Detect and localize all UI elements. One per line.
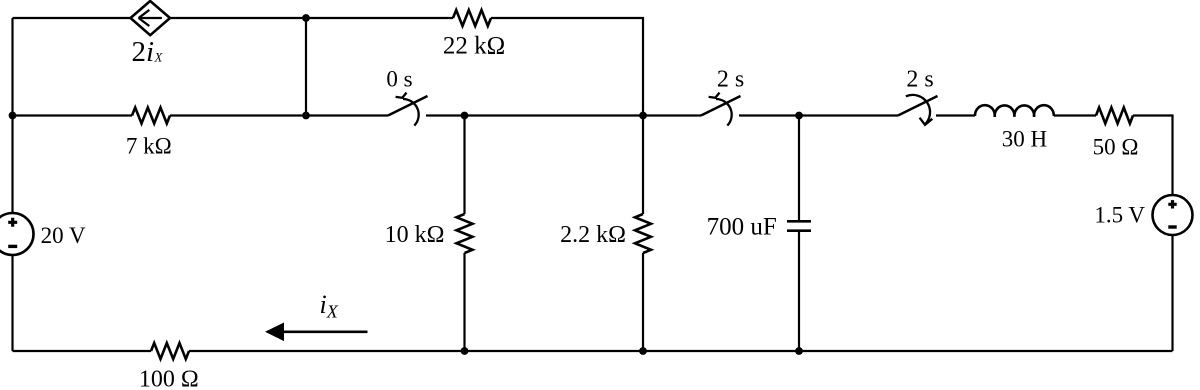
svg-text:2 s: 2 s: [717, 67, 744, 93]
capacitor 700 uF: [787, 221, 811, 230]
current arrow iX: [265, 323, 368, 342]
switch 0s blade: [388, 96, 428, 116]
switch 2s-a arrowhead: [709, 93, 720, 98]
wire mid horizontal after switch1: [426, 114, 643, 116]
wire mid before inductor: [936, 114, 975, 116]
switch 2s-b blade: [898, 96, 938, 116]
inductor 30 H: [975, 105, 1054, 117]
wire mid horizontal to switch1: [170, 114, 388, 116]
svg-text:100 Ω: 100 Ω: [139, 367, 199, 390]
wire top-left horizontal: [13, 17, 131, 19]
wire vertical 2.2k upper: [642, 116, 644, 215]
wire bottom-left: [13, 350, 152, 352]
switch 2s-a blade: [701, 96, 741, 116]
wire mid-left horizontal: [13, 114, 133, 116]
svg-text:20 V: 20 V: [41, 223, 86, 248]
svg-text:2iX: 2iX: [132, 36, 164, 68]
wire mid-right with corner down: [1133, 116, 1173, 196]
svg-text:0 s: 0 s: [386, 66, 412, 91]
svg-text:22 kΩ: 22 kΩ: [443, 33, 505, 60]
svg-text:50 Ω: 50 Ω: [1093, 135, 1139, 160]
node mid x=799: [795, 112, 803, 120]
wire left vertical lower: [11, 255, 13, 351]
wire mid after switch2: [739, 114, 898, 116]
resistor 50 Ohm: [1096, 108, 1133, 124]
voltage source 1.5 V: [1153, 195, 1193, 235]
wire vertical 10k lower: [463, 253, 465, 351]
wire top middle horizontal: [170, 17, 453, 19]
wire vertical 10k upper: [463, 116, 465, 215]
wire top-right with corner down: [491, 18, 643, 116]
dependent current source 2iX diamond: [131, 1, 171, 35]
wire between inductor and 50 Ohm: [1054, 114, 1096, 116]
node mid-left x=12.5: [9, 112, 17, 120]
wire right vertical below source: [1171, 235, 1173, 351]
wire vertical capacitor lower: [798, 231, 800, 351]
node bottom x=643: [639, 347, 647, 355]
resistor 10 kOhm: [457, 214, 473, 253]
wire left vertical upper: [11, 18, 13, 213]
wire vertical link x=306: [305, 18, 307, 116]
node mid x=643: [639, 112, 647, 120]
svg-text:2 s: 2 s: [906, 66, 933, 92]
svg-text:700 uF: 700 uF: [707, 214, 777, 241]
svg-text:30 H: 30 H: [1002, 127, 1047, 152]
resistor 22 kOhm: [453, 10, 491, 26]
svg-text:10 kΩ: 10 kΩ: [385, 222, 445, 248]
switch 2s-a action arc: [716, 99, 732, 126]
svg-text:iX: iX: [320, 290, 339, 322]
resistor 100 Ohm: [151, 343, 189, 359]
switch 0s action arc: [403, 99, 419, 126]
wire bottom-right: [189, 350, 1173, 352]
node mid x=306: [302, 112, 310, 120]
node bottom x=464.5: [461, 347, 469, 355]
node top at x=306: [302, 14, 310, 22]
switch 2s-b action arc: [906, 95, 930, 125]
resistor 7 kOhm: [132, 108, 170, 124]
switch 2s-b arrowhead: [920, 118, 933, 125]
wire mid to switch2: [643, 114, 701, 116]
node mid x=464.5: [461, 112, 469, 120]
resistor 2.2 kOhm: [635, 214, 651, 253]
node bottom x=799: [795, 347, 803, 355]
switch 0s arrowhead: [396, 93, 407, 98]
voltage source 20 V: [0, 213, 34, 255]
svg-text:2.2 kΩ: 2.2 kΩ: [560, 222, 626, 248]
svg-text:7 kΩ: 7 kΩ: [126, 134, 172, 159]
wire vertical 2.2k lower: [642, 253, 644, 351]
svg-text:1.5 V: 1.5 V: [1094, 202, 1145, 227]
wire vertical capacitor upper: [798, 116, 800, 222]
